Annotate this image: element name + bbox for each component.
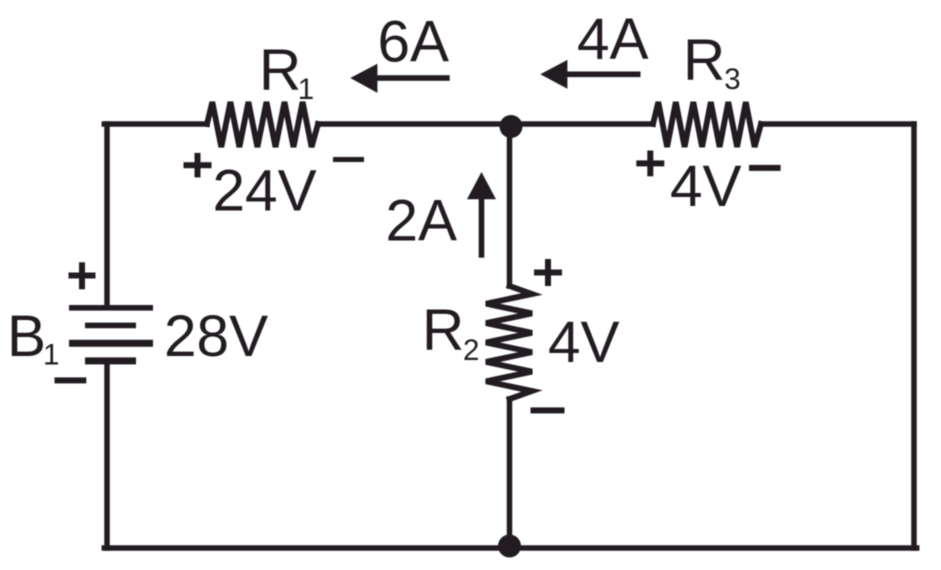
svg-text:2A: 2A — [386, 189, 458, 254]
polarity plus R3 — [636, 151, 664, 177]
label R2 — [422, 298, 479, 368]
wire middle lower segment — [507, 399, 513, 548]
wire top-left segment — [104, 121, 207, 127]
node A top junction — [500, 115, 523, 138]
svg-text:R: R — [683, 27, 725, 92]
svg-text:1: 1 — [298, 73, 314, 106]
label 4A — [577, 7, 649, 72]
label R1 — [259, 37, 314, 106]
wire left lower segment — [104, 362, 110, 548]
svg-text:1: 1 — [43, 339, 59, 372]
polarity plus battery — [69, 262, 96, 289]
polarity minus R3 — [749, 165, 781, 171]
svg-text:4A: 4A — [577, 7, 649, 72]
svg-text:4V: 4V — [670, 154, 742, 219]
svg-text:B: B — [7, 304, 46, 369]
current arrow 4A — [540, 60, 640, 89]
svg-text:2: 2 — [463, 334, 479, 367]
label R3 — [683, 27, 741, 96]
svg-text:R: R — [422, 298, 464, 363]
value 4V middle — [548, 310, 620, 375]
label B1 — [7, 304, 59, 371]
value 24V — [213, 159, 317, 224]
svg-text:6A: 6A — [378, 9, 450, 74]
resistor R3 — [653, 102, 761, 147]
wire top-middle segment — [318, 121, 653, 127]
svg-text:R: R — [259, 37, 301, 102]
node B bottom junction — [498, 535, 521, 558]
wire right side — [911, 124, 917, 548]
wire middle upper segment — [507, 124, 513, 286]
resistor R1 — [207, 102, 318, 147]
polarity plus R1 — [184, 153, 212, 178]
polarity minus R2 — [531, 407, 565, 413]
wire top-right segment — [761, 121, 914, 127]
svg-text:24V: 24V — [213, 159, 317, 224]
label 6A — [378, 9, 450, 74]
svg-text:28V: 28V — [164, 304, 268, 369]
resistor R2 — [486, 286, 532, 399]
wire bottom — [104, 545, 916, 551]
value 28V — [164, 304, 268, 369]
battery B1 — [69, 305, 153, 364]
current arrow 2A up — [467, 172, 496, 258]
label 2A — [386, 189, 458, 254]
polarity plus R2 — [534, 259, 562, 286]
wire left upper segment — [104, 124, 110, 306]
value 4V right — [670, 154, 742, 219]
svg-text:3: 3 — [724, 63, 740, 96]
polarity minus battery — [55, 377, 87, 383]
current arrow 6A — [350, 64, 449, 93]
svg-text:4V: 4V — [548, 310, 620, 375]
polarity minus R1 — [333, 157, 364, 162]
